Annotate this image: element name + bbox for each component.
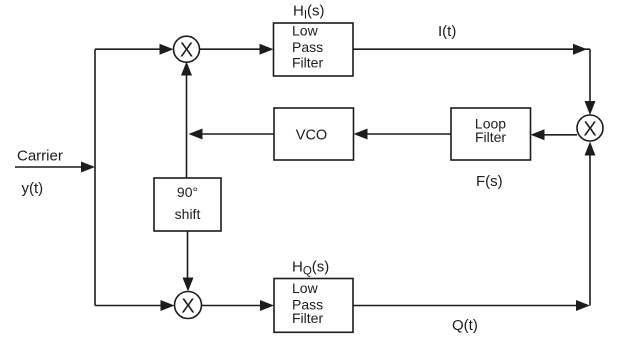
block B1: top Low Pass Filter [274, 23, 354, 77]
multiplier M3 (phase detector mixer) [577, 115, 603, 141]
svg-text:Filter: Filter [292, 310, 323, 326]
svg-text:X: X [583, 118, 596, 140]
svg-text:Low: Low [292, 23, 319, 39]
block B5: bottom Low Pass Filter [274, 279, 353, 333]
wire: Loop Filter output into VCO [354, 129, 452, 140]
wire: right vertical down into multiplier M3 [585, 49, 596, 115]
wire: M2 output to bottom low pass filter [202, 300, 275, 311]
block B2: VCO [274, 108, 354, 160]
label HI(s) [293, 3, 325, 22]
wire: bottom branch from bus to multiplier M2 [95, 300, 175, 311]
wire: bottom filter output Q(t) to right corner [353, 300, 590, 311]
svg-text:Carrier: Carrier [17, 148, 63, 165]
svg-text:Filter: Filter [292, 55, 323, 71]
wire: top filter output I(t) to right corner [353, 44, 590, 55]
label F(s) [476, 173, 503, 190]
svg-text:X: X [181, 295, 194, 317]
block B4: 90 degree shift [154, 178, 221, 231]
label HQ(s) [292, 259, 329, 278]
multiplier M2 (bottom mixer) [175, 292, 202, 319]
svg-text:shift: shift [175, 206, 201, 222]
block B3: Loop Filter [451, 108, 531, 160]
svg-text:Pass: Pass [292, 39, 323, 55]
svg-text:y(t): y(t) [22, 180, 44, 197]
multiplier M1 (top mixer) [174, 36, 200, 62]
wire: M1 output to top low pass filter [200, 44, 274, 55]
svg-text:VCO: VCO [296, 128, 327, 144]
label Q(t) [452, 317, 478, 334]
svg-text:Filter: Filter [475, 129, 506, 145]
wire: top branch from bus to multiplier M1 [95, 44, 174, 55]
label y(t) [22, 180, 44, 197]
svg-text:HI(s): HI(s) [293, 3, 325, 22]
svg-text:Low: Low [292, 280, 319, 296]
svg-text:90°: 90° [177, 184, 198, 200]
wire: M3 output into Loop Filter [531, 129, 578, 140]
label I(t) [438, 23, 456, 40]
svg-text:I(t): I(t) [438, 23, 456, 40]
wire: carrier input arrow into left bus [15, 162, 95, 173]
wire: VCO output left to oscillator bus junction [189, 129, 275, 140]
wire: 90 degree shift output down into M2 [183, 231, 194, 292]
label Carrier [17, 148, 63, 165]
wire: oscillator bus up into M1 [181, 62, 192, 179]
svg-text:X: X [180, 40, 193, 62]
svg-text:F(s): F(s) [476, 173, 503, 190]
wire: right vertical up into M3 [585, 142, 596, 306]
svg-text:HQ(s): HQ(s) [292, 259, 329, 278]
svg-text:Q(t): Q(t) [452, 317, 478, 334]
wire: left vertical bus [94, 49, 96, 305]
